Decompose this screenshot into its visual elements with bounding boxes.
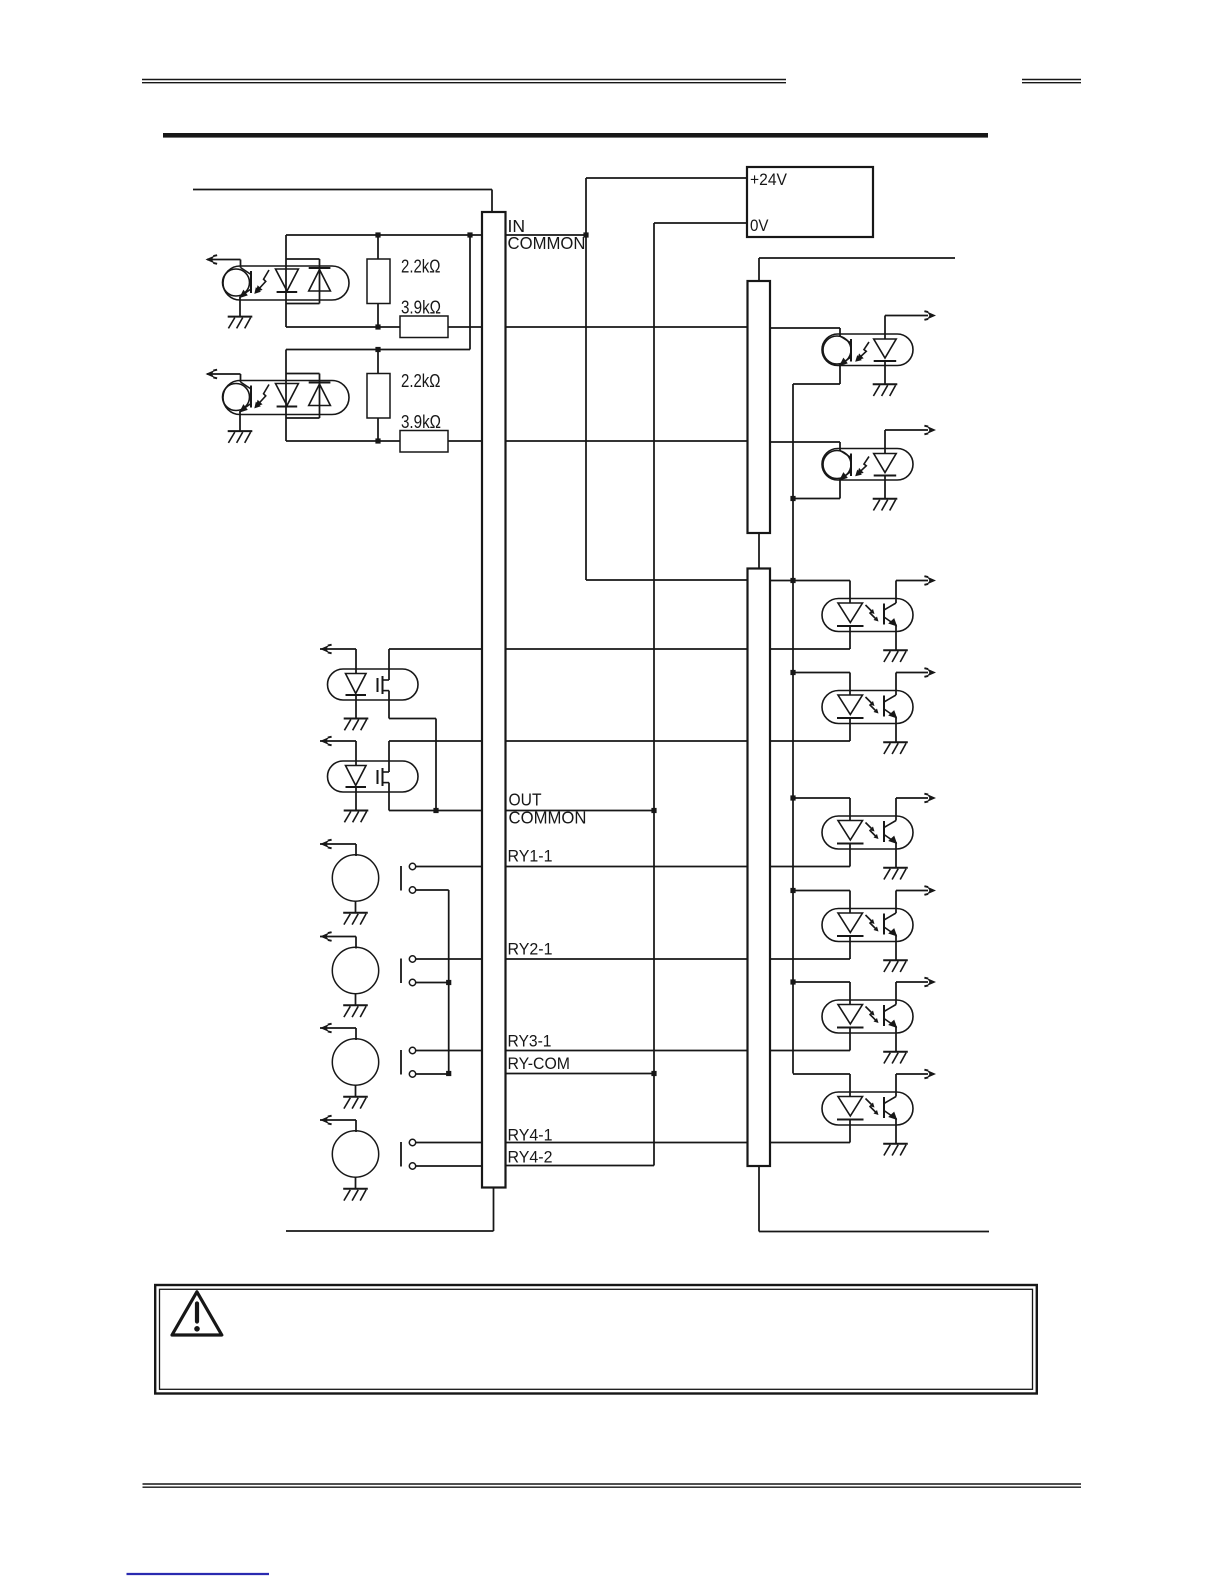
wire M1 LED cathode xyxy=(884,361,886,384)
svg-text:COMMON: COMMON xyxy=(508,233,586,253)
wire relay RY4 coil lead xyxy=(320,1119,356,1121)
arrow terminal P3 output xyxy=(924,794,936,803)
svg-text:3.9kΩ: 3.9kΩ xyxy=(401,411,441,432)
wire P6 LED anode drop xyxy=(849,1074,851,1097)
wire relay RY4 to ground xyxy=(355,1177,357,1189)
optocoupler M2 monitor input 2 xyxy=(822,449,913,481)
wire P2 emitter drop xyxy=(895,717,897,743)
wire PC2 emitter xyxy=(239,411,241,431)
photoMOS relay PM2 xyxy=(328,761,419,792)
wire RY3 second contact link xyxy=(416,1073,449,1075)
wire P3 emitter drop xyxy=(895,842,897,868)
wire R3 bottom stub xyxy=(377,418,379,441)
wire relay RY2 coil lead xyxy=(320,936,356,938)
wire R1 bottom stub xyxy=(377,304,379,328)
arrow terminal relay RY1 drive xyxy=(320,840,332,849)
arrow terminal P4 output xyxy=(924,886,936,895)
footer blue link rule xyxy=(127,1573,270,1575)
arrow terminal P2 output xyxy=(924,668,936,677)
relay coil RY4 xyxy=(332,1131,378,1177)
arrow terminal output 2 xyxy=(320,737,332,746)
wire photoMOS1 drain riser xyxy=(388,649,390,680)
wire stub into connector CN2 top xyxy=(758,258,760,281)
switch lever RY1 xyxy=(400,866,402,891)
wire P6 collector riser xyxy=(895,1074,897,1097)
wire R3 top stub xyxy=(377,350,379,374)
wire P5 collector riser xyxy=(895,982,897,1005)
wire P2 collector out xyxy=(896,672,928,674)
wire input1 signal to connectors xyxy=(448,326,747,328)
light arrows P3 xyxy=(866,823,879,840)
relay coil RY2 xyxy=(332,947,378,993)
wire pin line OUT1 xyxy=(506,648,747,650)
optocoupler P3 output indicator 3 xyxy=(822,816,913,849)
wire CN2 inter-block link xyxy=(758,533,760,569)
arrow terminal P6 output xyxy=(924,1070,936,1079)
ground PC1 emitter xyxy=(228,317,253,329)
junction OUT COMMON sources xyxy=(433,808,438,813)
junction R3 top xyxy=(375,347,380,352)
wire PC2 diode top link xyxy=(286,373,320,375)
svg-text:RY1-1: RY1-1 xyxy=(508,847,553,866)
contact RY1-a xyxy=(409,863,415,869)
warning box outer border xyxy=(155,1285,1037,1394)
wire 0V vertical rail xyxy=(653,223,655,1166)
junction rail P3 xyxy=(790,795,795,800)
wire photoMOS2 drain to connector xyxy=(389,740,482,742)
arrow terminal P1 output xyxy=(924,576,936,585)
relay coil RY3 xyxy=(332,1039,378,1085)
wire photoMOS1 source riser to OUT COMMON xyxy=(435,719,437,811)
warning triangle icon xyxy=(172,1292,222,1335)
section title thick rule xyxy=(163,133,988,138)
wire M1 emitter to rail xyxy=(793,383,840,385)
optocoupler P1 output indicator 1 xyxy=(822,599,913,632)
optocoupler P4 output indicator 4 xyxy=(822,909,913,942)
light arrows P4 xyxy=(866,915,879,932)
wire P5 LED return to connector xyxy=(770,1050,850,1052)
wire P4 emitter drop xyxy=(895,935,897,961)
wire relay RY3 to ground xyxy=(355,1085,357,1097)
contact RY3-b xyxy=(409,1071,415,1077)
reverse diode D2 of PC1 xyxy=(309,268,331,291)
junction OUT COMMON 0V xyxy=(651,808,656,813)
arrow terminal M2 LED supply xyxy=(924,426,936,435)
wire RY2-1 contact to connector xyxy=(416,958,482,960)
wire relay RY1 to ground xyxy=(355,901,357,913)
junction rail P4 xyxy=(790,888,795,893)
junction relay2 common xyxy=(446,980,451,985)
wire PC1 emitter xyxy=(239,297,241,317)
wire LED supply rail xyxy=(792,384,794,1074)
footer double rule xyxy=(143,1484,1082,1487)
resistor R2 3.9k xyxy=(400,316,448,338)
wire relay RY1 coil lead xyxy=(320,843,356,845)
contact RY3-a xyxy=(409,1047,415,1053)
wire +24V vertical rail xyxy=(585,178,587,580)
wire relay RY2 to ground xyxy=(355,994,357,1006)
wire output opto P6 LED feed (rail corner) xyxy=(793,1073,850,1075)
contact RY4-a xyxy=(409,1139,415,1145)
wire pin line RY3-1 xyxy=(506,1050,747,1052)
wire P3 collector riser xyxy=(895,798,897,821)
light arrow M1 xyxy=(855,342,869,362)
ground relay RY1 xyxy=(343,913,368,925)
wire CN2 bottom stub xyxy=(758,1166,760,1232)
wire P4 LED anode drop xyxy=(849,891,851,914)
wire RY4-1 contact to connector xyxy=(416,1142,482,1144)
ground relay RY3 xyxy=(343,1097,368,1109)
wire photoMOS2 drain riser xyxy=(388,741,390,772)
wire relay RY4 coil drop xyxy=(355,1120,357,1132)
ground P6 emitter xyxy=(883,1144,908,1156)
wire output opto P4 LED feed xyxy=(793,890,850,892)
contact RY2-a xyxy=(409,956,415,962)
wire channel2 upper rail xyxy=(286,349,470,351)
ground relay RY2 xyxy=(343,1005,368,1017)
wire PC2 diode right leg xyxy=(319,374,321,419)
wire photoMOS2 source drop xyxy=(388,783,390,811)
wire top input line xyxy=(193,189,492,191)
wire P3 collector out xyxy=(896,797,928,799)
wire IN COMMON rail left xyxy=(286,234,482,236)
ground M2 LED xyxy=(873,499,898,511)
junction relay3 common on RY-COM xyxy=(446,1071,451,1076)
reverse diode D4 of PC2 xyxy=(309,383,331,406)
wire PC1 diode right leg xyxy=(319,259,321,304)
wire photoMOS1 LED anode lead xyxy=(320,648,356,650)
LED D1 of PC1 xyxy=(276,269,299,292)
wire RY-COM to 0V rail xyxy=(506,1073,654,1075)
wire input2 lower rail xyxy=(286,440,400,442)
ground photoMOS2 LED xyxy=(344,811,369,823)
ground P1 emitter xyxy=(883,650,908,662)
arrow terminal output 1 xyxy=(320,645,332,654)
wire photoMOS2 LED cathode xyxy=(355,787,357,810)
wire RY1 second contact link xyxy=(416,889,449,891)
wire photoMOS1 LED cathode xyxy=(355,695,357,718)
ground PC2 emitter xyxy=(228,431,253,443)
resistor R1 2.2k xyxy=(367,259,390,304)
wire 0V from supply xyxy=(654,222,747,224)
junction rail top P1 xyxy=(790,578,795,583)
wire photoMOS1 source drop xyxy=(388,691,390,719)
wire monitor opto M1 collector from connector xyxy=(770,327,840,329)
LED of M2 xyxy=(874,454,897,476)
wire CN2 frame ground lead xyxy=(759,1231,989,1233)
light arrow PC2 xyxy=(254,385,269,409)
light arrows P1 xyxy=(866,605,879,622)
junction R1 bottom xyxy=(375,324,380,329)
optocoupler P2 output indicator 2 xyxy=(822,691,913,724)
light arrows P5 xyxy=(866,1007,879,1024)
wire input2 signal to connectors xyxy=(448,440,747,442)
wire P5 emitter drop xyxy=(895,1026,897,1052)
wire relay RY3 coil lead xyxy=(320,1027,356,1029)
wire OUT COMMON to 0V rail xyxy=(506,810,654,812)
wire PC2 diode left leg xyxy=(285,350,287,442)
header double rule left xyxy=(142,80,786,83)
svg-text:RY4-1: RY4-1 xyxy=(508,1126,553,1145)
svg-text:RY2-1: RY2-1 xyxy=(508,940,553,959)
wire monitor opto M2 collector from connector xyxy=(770,441,840,443)
wire photoMOS1 source link xyxy=(389,718,436,720)
resistor R4 3.9k xyxy=(400,431,448,453)
wire P3 LED anode drop xyxy=(849,798,851,821)
svg-text:2.2kΩ: 2.2kΩ xyxy=(401,370,441,391)
wire P1 LED cathode xyxy=(849,626,851,649)
wire P6 LED cathode xyxy=(849,1120,851,1143)
switch lever RY3 xyxy=(400,1050,402,1075)
junction R1 top xyxy=(375,232,380,237)
ground P3 emitter xyxy=(883,868,908,880)
wire pin line RY1-1 xyxy=(506,866,747,868)
wire relay RY2 coil drop xyxy=(355,937,357,949)
wire PC2 collector out xyxy=(207,373,241,375)
junction channel2 riser xyxy=(467,232,472,237)
wire RY1-1 contact to connector xyxy=(416,866,482,868)
wire M2 LED cathode xyxy=(884,476,886,499)
wire OUT COMMON left xyxy=(389,810,482,812)
arrow terminal input 1 output xyxy=(206,255,218,264)
wire relay RY1 coil drop xyxy=(355,844,357,856)
wire RY4-2 to 0V xyxy=(506,1165,654,1167)
wire photoMOS1 LED anode drop xyxy=(355,649,357,674)
arrow terminal P5 output xyxy=(924,978,936,987)
connector CN1 (terminal block) xyxy=(482,212,506,1188)
wire PC1 diode bottom link xyxy=(286,303,320,305)
wire output opto P2 LED feed xyxy=(793,672,850,674)
wire P2 LED return to connector xyxy=(770,740,850,742)
svg-text:0V: 0V xyxy=(750,216,769,235)
junction rail P5 xyxy=(790,979,795,984)
light arrow PC1 xyxy=(254,270,269,294)
light arrow M2 xyxy=(855,457,869,477)
wire stub into connector CN1 top xyxy=(491,190,493,213)
ground P2 emitter xyxy=(883,742,908,754)
wire P1 emitter drop xyxy=(895,625,897,651)
wire P5 collector out xyxy=(896,981,928,983)
svg-text:RY3-1: RY3-1 xyxy=(508,1031,552,1050)
ground P4 emitter xyxy=(883,960,908,972)
svg-text:+24V: +24V xyxy=(750,170,788,189)
power supply box 24V xyxy=(747,167,873,237)
wire CN1 frame ground lead xyxy=(286,1230,494,1232)
contact RY1-b xyxy=(409,887,415,893)
svg-text:2.2kΩ: 2.2kΩ xyxy=(401,256,441,277)
svg-text:RY-COM: RY-COM xyxy=(508,1054,571,1073)
wire PC2 diode bottom link xyxy=(286,417,320,419)
wire output opto P5 LED feed xyxy=(793,981,850,983)
resistor R3 2.2k xyxy=(367,374,390,419)
ground relay RY4 xyxy=(343,1189,368,1201)
junction rail P2 xyxy=(790,670,795,675)
wire P1 LED return to connector xyxy=(770,648,850,650)
optocoupler M1 monitor input 1 xyxy=(822,334,913,366)
wire M2 LED anode riser xyxy=(884,430,886,454)
warning box inner border xyxy=(160,1289,1033,1389)
wire P1 LED anode drop xyxy=(849,581,851,604)
wire PC1 diode left leg xyxy=(285,235,287,327)
wire external +24V bus xyxy=(759,257,955,259)
wire P1 collector riser xyxy=(895,581,897,604)
wire +24V to connector CN2 xyxy=(586,579,747,581)
wire RY2 second contact link xyxy=(416,982,449,984)
ground photoMOS1 LED xyxy=(344,719,369,731)
wire RY4-2 contact to connector xyxy=(416,1165,482,1167)
header double rule right xyxy=(1022,80,1081,83)
connector CN2 lower block xyxy=(748,569,771,1167)
arrow terminal relay RY3 drive xyxy=(320,1024,332,1033)
svg-text:3.9kΩ: 3.9kΩ xyxy=(401,297,441,318)
wire P2 collector riser xyxy=(895,673,897,696)
arrow terminal relay RY2 drive xyxy=(320,932,332,941)
wire pin line OUT2 xyxy=(506,740,747,742)
LED D3 of PC2 xyxy=(276,384,299,407)
wire PC1 collector out xyxy=(207,259,241,261)
optocoupler P6 output indicator 6 xyxy=(822,1092,913,1125)
wire CN1 bottom stub xyxy=(493,1188,495,1232)
wire P3 LED cathode xyxy=(849,844,851,867)
wire P6 emitter drop xyxy=(895,1118,897,1144)
wire P4 collector riser xyxy=(895,891,897,914)
wire output opto P3 LED feed xyxy=(793,797,850,799)
wire input1 lower rail xyxy=(286,326,400,328)
wire M2 collector drop xyxy=(839,442,841,451)
switch lever RY4 xyxy=(400,1142,402,1167)
LED of M1 xyxy=(874,339,897,361)
wire RY3-1 contact to connector xyxy=(416,1050,482,1052)
wire P3 LED return to connector xyxy=(770,866,850,868)
contact RY4-b xyxy=(409,1163,415,1169)
wire M1 emitter drop xyxy=(839,365,841,385)
junction IN COMMON +24V xyxy=(583,232,588,237)
connector CN2 upper block xyxy=(748,281,771,533)
wire pin line RY2-1 xyxy=(506,958,747,960)
wire photoMOS2 LED anode drop xyxy=(355,741,357,766)
svg-text:RY4-2: RY4-2 xyxy=(508,1148,553,1167)
wire M1 LED anode riser xyxy=(884,316,886,340)
photoMOS relay PM1 xyxy=(328,669,419,700)
wire M1 collector drop xyxy=(839,328,841,336)
wire relay RY3 coil drop xyxy=(355,1028,357,1040)
wire IN COMMON to +24V rail xyxy=(506,234,586,236)
ground P5 emitter xyxy=(883,1052,908,1064)
ground M1 LED xyxy=(873,384,898,396)
wire P1 collector out xyxy=(896,580,928,582)
wire pin line RY4-1 xyxy=(506,1142,747,1144)
optocoupler PC1 input channel 1 xyxy=(223,266,350,300)
optocoupler P5 output indicator 5 xyxy=(822,1000,913,1033)
wire relay common chain xyxy=(448,890,450,1074)
wire M2 emitter drop xyxy=(839,479,841,499)
wire P6 LED return to connector xyxy=(770,1142,850,1144)
wire PC1 collector xyxy=(240,260,242,268)
junction RY-COM 0V xyxy=(651,1071,656,1076)
light arrows P6 xyxy=(866,1099,879,1116)
arrow terminal relay RY4 drive xyxy=(320,1116,332,1125)
wire P4 LED return to connector xyxy=(770,958,850,960)
wire R1 top stub xyxy=(377,235,379,259)
wire output opto P1 LED feed from connector xyxy=(770,580,850,582)
wire M1 LED supply lead xyxy=(885,315,928,317)
wire P4 collector out xyxy=(896,890,928,892)
wire P5 LED cathode xyxy=(849,1028,851,1051)
arrow terminal M1 LED supply xyxy=(924,311,936,320)
wire P4 LED cathode xyxy=(849,936,851,959)
junction M2 emitter on rail xyxy=(790,496,795,501)
wire M2 LED supply lead xyxy=(885,429,928,431)
wire photoMOS1 drain to connector xyxy=(389,648,482,650)
wire channel2 riser to IN COMMON xyxy=(469,235,471,350)
wire +24V from supply xyxy=(586,177,747,179)
wire PC1 diode top link xyxy=(286,258,320,260)
light arrows P2 xyxy=(866,697,879,714)
wire photoMOS2 LED anode lead xyxy=(320,740,356,742)
svg-text:OUT: OUT xyxy=(509,790,542,810)
wire P6 collector out xyxy=(896,1073,928,1075)
contact RY2-b xyxy=(409,979,415,985)
switch lever RY2 xyxy=(400,959,402,984)
optocoupler PC2 input channel 2 xyxy=(223,381,350,415)
wire P2 LED anode drop xyxy=(849,673,851,696)
junction R3 bottom xyxy=(375,438,380,443)
svg-text:COMMON: COMMON xyxy=(509,808,587,828)
relay coil RY1 xyxy=(332,855,378,901)
wire M2 emitter to rail xyxy=(793,498,840,500)
wire P2 LED cathode xyxy=(849,718,851,741)
wire PC2 collector xyxy=(240,374,242,382)
arrow terminal input 2 output xyxy=(206,370,218,379)
wire P5 LED anode drop xyxy=(849,982,851,1005)
